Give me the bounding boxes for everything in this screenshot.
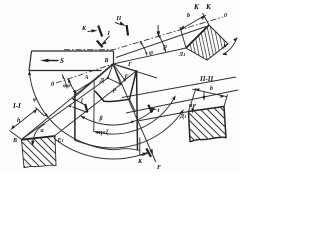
svg-text:α: α [41, 128, 45, 134]
psi arc right [140, 42, 147, 56]
line B to I-I corner [22, 64, 114, 140]
t arrow [150, 108, 154, 111]
svg-text:t: t [158, 108, 160, 114]
feed arrow S [44, 60, 59, 62]
t tick mark [148, 105, 152, 113]
svg-text:h: h [17, 118, 21, 124]
svg-text:К: К [81, 26, 87, 32]
pitch arrow vertical [157, 25, 159, 34]
bottom arc r95 [54, 138, 149, 159]
right band line to K-K T [116, 27, 206, 58]
svg-text:β: β [99, 116, 104, 122]
svg-text:Г: Г [127, 62, 132, 68]
mu arc K-K [223, 38, 237, 54]
svg-text:φ-ψ: φ-ψ [63, 83, 71, 89]
svg-text:II-II: II-II [199, 75, 214, 83]
tool left vertical edge [74, 92, 76, 141]
tool wavy bottom [75, 141, 140, 151]
edge B-Gamma second [113, 64, 157, 78]
xi tick [85, 104, 87, 112]
h extension ticks [10, 108, 45, 140]
tool left upper edge [75, 80, 95, 92]
line P to E1 [55, 85, 121, 136]
node P [119, 83, 121, 85]
beta arc [81, 109, 154, 125]
svg-text:Е1: Е1 [57, 138, 64, 144]
right band line to K-K L [113, 48, 186, 64]
svg-text:μ: μ [163, 44, 168, 50]
node D [107, 77, 109, 79]
svg-text:0: 0 [224, 13, 227, 19]
diagonal B-P [113, 64, 121, 85]
section mark K top: arrow [88, 30, 95, 33]
svg-text:В: В [104, 58, 109, 64]
svg-text:II: II [116, 16, 122, 22]
svg-text:К: К [137, 159, 143, 165]
svg-text:φ: φ [33, 97, 37, 103]
phi arc [29, 71, 48, 118]
svg-text:η=ξ: η=ξ [99, 129, 109, 137]
diagonal B-E [113, 64, 125, 80]
II-II hatched block [170, 79, 253, 162]
theta arc [62, 74, 67, 88]
mu arc right [158, 35, 165, 52]
line D to I-I corner [22, 78, 108, 140]
right band upper line [122, 77, 236, 98]
phi-psi arc [68, 79, 76, 94]
K-K rhombus hatched [183, 3, 241, 80]
svg-text:μ: μ [223, 43, 228, 49]
insert body outline [95, 71, 136, 102]
section mark I: arrow [104, 36, 110, 43]
right band lower line [138, 112, 189, 122]
I-I hatched block [3, 112, 79, 188]
workpiece bar outline [29, 51, 114, 71]
svg-text:b: b [187, 13, 190, 19]
alpha1 arc [192, 104, 196, 112]
svg-text:θ: θ [51, 82, 55, 88]
edge BA extension [74, 80, 95, 98]
svg-text:А: А [84, 75, 89, 81]
node Gamma [135, 70, 137, 72]
right band second line [126, 90, 238, 113]
line B to F bottom right [113, 64, 156, 162]
tool right vertical edge [136, 72, 139, 151]
svg-text:Л1: Л1 [178, 52, 185, 58]
alpha arc I-I [33, 124, 46, 145]
svg-text:S: S [60, 57, 64, 65]
h dimension line [11, 109, 37, 130]
section mark II: tick [127, 25, 128, 36]
edge corner down to right vertical [130, 99, 136, 112]
insert groove profile B-D-P-E-G [108, 64, 137, 84]
short edge bottom right [139, 138, 141, 157]
cutting edge B-A [95, 64, 114, 80]
node E [124, 79, 126, 81]
K bottom arrow [142, 154, 146, 155]
development arc r84 to D1 [48, 110, 184, 148]
svg-text:К: К [193, 3, 200, 11]
svg-text:Е: Е [124, 75, 129, 81]
tool inner vertical [93, 81, 95, 133]
svg-text:I: I [107, 31, 111, 37]
section mark I: tick [97, 41, 103, 48]
section mark K top: tick [98, 26, 102, 37]
dash-dot axis O [64, 17, 223, 50]
edge B-Gamma [113, 64, 136, 71]
svg-text:I-I: I-I [12, 102, 21, 110]
section mark II: arrow [115, 23, 122, 26]
svg-text:В: В [12, 138, 17, 144]
K tick bottom [146, 149, 151, 157]
xi arc [75, 100, 86, 106]
b dimension K-K [182, 16, 205, 29]
eta arc [94, 96, 175, 134]
svg-text:b: b [210, 86, 213, 92]
svg-text:ξ: ξ [81, 98, 84, 106]
b dimension II-II [193, 89, 228, 97]
arrowhead F line [150, 149, 153, 155]
svg-text:К: К [205, 3, 212, 11]
svg-text:F: F [157, 165, 161, 171]
dash-dot theta line [56, 64, 113, 83]
svg-text:Д1: Д1 [179, 114, 186, 120]
